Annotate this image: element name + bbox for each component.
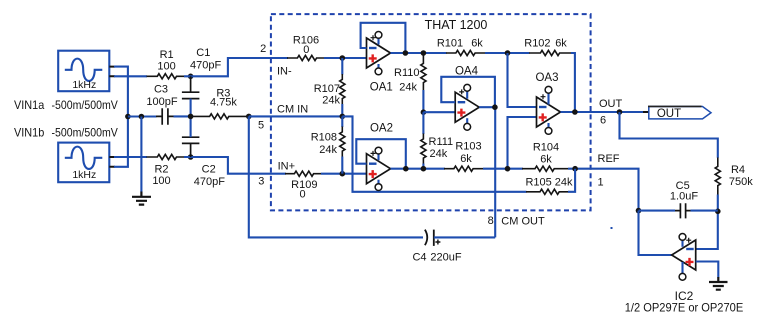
node R1/C1 — [188, 74, 194, 80]
capacitor C2 — [182, 137, 200, 157]
op-amp OA4 — [455, 84, 479, 130]
svg-text:4.75k: 4.75k — [210, 97, 237, 109]
svg-text:24k: 24k — [430, 148, 448, 160]
wire R4 to C5 junction and IC2- — [696, 195, 718, 250]
svg-text:8: 8 — [488, 215, 494, 227]
svg-text:VIN1a: VIN1a — [14, 98, 45, 112]
wire R110 to node — [422, 90, 424, 112]
op-amp IC2 (mirrored) — [672, 234, 696, 281]
wire OA1 feedback loop — [361, 23, 406, 53]
wire CM node down to C4 — [249, 116, 423, 237]
svg-text:220uF: 220uF — [430, 251, 461, 263]
svg-text:470pF: 470pF — [190, 60, 221, 72]
svg-text:C4: C4 — [412, 251, 426, 263]
capacitor C1 — [182, 76, 200, 98]
resistor R4 — [715, 158, 720, 195]
svg-text:6k: 6k — [555, 38, 567, 50]
svg-text:R111: R111 — [429, 136, 454, 148]
wire CM IN (node to pin 5) — [249, 115, 342, 117]
wire R105 right to REF node — [568, 169, 575, 192]
node R110/R111/OA4+ — [421, 109, 427, 115]
svg-text:2: 2 — [260, 43, 266, 55]
svg-text:R103: R103 — [455, 141, 481, 153]
svg-text:R107: R107 — [314, 83, 340, 95]
svg-text:CM IN: CM IN — [277, 104, 308, 116]
ground (IC2) — [709, 277, 728, 290]
OUT net flag — [643, 106, 711, 120]
node R106/R107 — [340, 55, 346, 61]
svg-text:1: 1 — [598, 177, 604, 189]
wire OA4 feedback loop — [441, 77, 495, 107]
wire C1 lower lead — [190, 99, 192, 117]
svg-text:OA1: OA1 — [370, 82, 393, 94]
node OA4 out / CM OUT — [492, 104, 498, 110]
resistor R2 — [147, 154, 185, 159]
wire IC2+ to ground — [696, 262, 719, 278]
op-amp OA1 — [367, 32, 391, 75]
node OUT/R102 — [572, 109, 578, 115]
wire CM node to R105 run — [342, 116, 526, 191]
svg-text:100pF: 100pF — [146, 96, 177, 108]
svg-text:1/2 OP297E or OP270E: 1/2 OP297E or OP270E — [625, 301, 744, 315]
wire OA3+ to R103/R104 node — [508, 117, 537, 169]
wire C3 to R3 — [174, 115, 192, 117]
resistor R106 — [287, 55, 324, 60]
wire to ground — [140, 117, 142, 192]
svg-text:THAT 1200: THAT 1200 — [425, 18, 488, 32]
resistor R109 — [285, 171, 321, 176]
svg-text:6k: 6k — [471, 38, 483, 50]
wire OA3 output OUT — [561, 111, 644, 113]
resistor R3 — [191, 114, 249, 119]
wire REF (node to pin 1 and C5 junction) — [568, 169, 639, 211]
svg-text:CM OUT: CM OUT — [501, 216, 545, 228]
svg-text:REF: REF — [598, 153, 620, 165]
svg-text:0: 0 — [303, 44, 309, 56]
svg-text:24k: 24k — [322, 95, 340, 107]
svg-text:1kHz: 1kHz — [72, 169, 96, 181]
capacitor C5 — [674, 203, 691, 218]
svg-text:C2: C2 — [202, 164, 216, 176]
node R3/CM — [246, 114, 252, 120]
node C5 left / REF — [636, 208, 642, 214]
svg-text:OUT: OUT — [657, 108, 681, 120]
wire OUT to R4 — [620, 112, 718, 158]
node R2/C2 — [188, 154, 194, 160]
wire V2+ to R2 — [114, 156, 147, 158]
svg-text:R104: R104 — [533, 142, 559, 154]
wire node to OA4+ — [423, 111, 455, 113]
svg-text:6k: 6k — [460, 153, 472, 165]
wire C5 left lead — [639, 210, 676, 212]
resistor R103 — [444, 166, 483, 171]
svg-text:R101: R101 — [437, 38, 463, 50]
svg-text:OA2: OA2 — [370, 122, 393, 134]
svg-text:R4: R4 — [731, 164, 745, 176]
svg-text:R110: R110 — [394, 67, 419, 79]
svg-text:6k: 6k — [540, 154, 552, 166]
resistor R104 — [522, 166, 568, 171]
svg-text:1kHz: 1kHz — [72, 79, 96, 91]
wire R101/R102 node to OA3- — [508, 53, 537, 107]
svg-text:100: 100 — [157, 61, 175, 73]
svg-text:R2: R2 — [154, 164, 168, 176]
voltage source V2 (1kHz sine) — [58, 143, 115, 183]
capacitor C4 (polarized) — [425, 230, 441, 246]
op-amp OA2 — [367, 147, 391, 190]
voltage source V1 (1kHz sine) — [58, 51, 115, 91]
node C1/C3/R3 — [188, 114, 194, 120]
op-amp OA3 — [537, 86, 561, 134]
stray dot — [611, 227, 613, 229]
svg-text:IN-: IN- — [277, 66, 292, 78]
svg-text:R105 24k: R105 24k — [525, 177, 573, 189]
svg-text:OA4: OA4 — [455, 65, 479, 77]
svg-text:5: 5 — [258, 120, 264, 132]
svg-text:3: 3 — [258, 175, 264, 187]
wire R109 to OA2 — [321, 173, 367, 175]
wire V1+ to V2- (sources common leg) — [114, 67, 128, 167]
wire C5 right lead — [691, 210, 718, 212]
wire R103 to R104 — [483, 168, 523, 170]
svg-text:24k: 24k — [399, 82, 417, 94]
svg-text:R1: R1 — [160, 49, 174, 61]
node R103/R104/OA3+ — [505, 166, 511, 172]
node OA1 loop — [403, 50, 409, 56]
node R108/R109 — [340, 171, 346, 177]
wire V1- to R1 — [114, 75, 147, 77]
svg-text:470pF: 470pF — [194, 176, 225, 188]
wire OA1 output run — [391, 52, 447, 54]
wire IN- (node to pin 2) — [184, 58, 288, 76]
resistor R108 — [341, 116, 343, 127]
svg-text:0: 0 — [300, 188, 306, 200]
wire CM left segment — [128, 115, 157, 117]
node R4/C5/IC2- — [715, 209, 721, 215]
svg-text:24k: 24k — [319, 144, 337, 156]
wire C2 upper lead — [190, 116, 192, 137]
svg-text:OA3: OA3 — [535, 72, 558, 84]
wire OA2 output run — [391, 168, 446, 170]
wire REF junction to IC2 output — [639, 211, 672, 255]
wire IN+ (node to pin 3) — [184, 157, 286, 174]
node R104/R105/REF — [572, 166, 578, 172]
resistor R105 — [526, 189, 568, 194]
svg-text:VIN1b: VIN1b — [14, 126, 45, 140]
svg-text:C3: C3 — [154, 83, 168, 95]
wire OA4 output — [479, 106, 495, 108]
node OUT branch — [617, 109, 623, 115]
node R101/R102 — [505, 50, 511, 56]
svg-text:-500m/500mV: -500m/500mV — [52, 126, 118, 140]
wire CM OUT vertical (pin 8) — [494, 107, 496, 237]
svg-text:IN+: IN+ — [278, 161, 295, 173]
svg-text:R102: R102 — [524, 38, 550, 50]
svg-text:-500m/500mV: -500m/500mV — [52, 98, 118, 112]
svg-text:6: 6 — [600, 115, 606, 127]
node OA2 loop — [403, 166, 409, 172]
resistor R110 — [421, 53, 426, 90]
node R107/CM — [340, 114, 346, 120]
wire OA2 feedback loop — [356, 139, 406, 169]
svg-text:C1: C1 — [196, 47, 210, 59]
node R111 bottom — [421, 166, 427, 172]
wire R101 to R102 — [485, 52, 530, 54]
node R110 top — [421, 50, 427, 56]
resistor R101 — [446, 50, 485, 55]
ground — [132, 192, 151, 205]
node ground tap — [139, 114, 145, 120]
capacitor C3 — [156, 108, 174, 125]
wire C4 to CM OUT — [434, 236, 495, 238]
IC boundary THAT 1200 (dashed) — [271, 14, 591, 210]
resistor R111 — [422, 112, 424, 134]
resistor R1 — [147, 74, 185, 79]
svg-text:100: 100 — [152, 175, 170, 187]
svg-text:1.0uF: 1.0uF — [670, 191, 698, 203]
wire R106 to OA1 — [324, 57, 367, 59]
svg-text:750k: 750k — [729, 176, 753, 188]
resistor R107 — [341, 58, 343, 75]
wire R102 feedback to OUT — [571, 53, 575, 112]
svg-text:R108: R108 — [311, 132, 337, 144]
node common leg / CM wire — [125, 114, 131, 120]
resistor R102 — [529, 50, 571, 55]
svg-text:OUT: OUT — [599, 98, 623, 110]
